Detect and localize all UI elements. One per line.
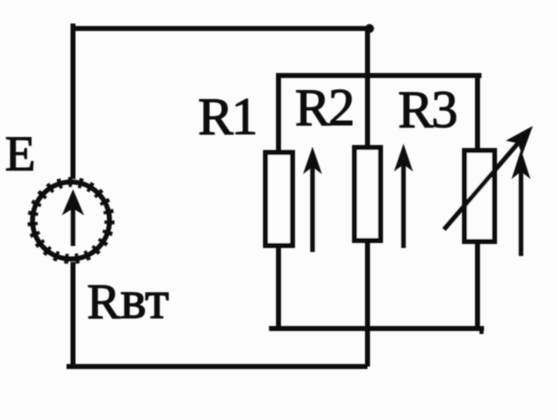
wire: bottom bus of parallel group	[269, 326, 484, 331]
svg-text:R1: R1	[198, 88, 256, 146]
resistor R2 body	[355, 148, 381, 241]
wire: top horizontal from left corner to middle junction	[71, 26, 371, 31]
wire: R1 lower branch	[276, 246, 281, 331]
variable resistor R3: diagonal arrow shaft	[444, 142, 520, 230]
wire: left vertical from top-left corner down to source top	[71, 24, 76, 180]
resistor R1 body	[266, 153, 293, 246]
wire: middle vertical from top wire down to R2	[365, 26, 370, 146]
wire: bottom horizontal back to source	[67, 364, 368, 369]
wire: left vertical from source bottom to bottom wire	[71, 262, 76, 369]
wire: R1 upper branch	[276, 73, 281, 152]
wire: R3 upper branch	[475, 73, 480, 150]
source E: internal arrow head	[64, 191, 83, 214]
wire: top bus of parallel group	[276, 73, 482, 78]
current arrow I3 head	[513, 152, 529, 177]
svg-text:Rвт: Rвт	[87, 269, 169, 330]
svg-text:R3: R3	[398, 81, 456, 139]
current arrow I3 shaft (right of R3)	[519, 168, 524, 256]
wire: R2 lower branch down through bus to bottom wire	[365, 241, 370, 367]
variable resistor R3: diagonal arrow head	[509, 128, 531, 152]
svg-text:E: E	[5, 125, 36, 181]
source E: internal arrow shaft	[71, 203, 76, 246]
source E: bumpy outline ticks	[33, 182, 110, 259]
node: top junction dot	[365, 24, 374, 33]
current arrow I1 shaft (right of R1)	[310, 163, 315, 252]
resistor R3 body	[465, 151, 495, 242]
current arrow I2 shaft (right of R2)	[401, 160, 406, 248]
svg-text:R2: R2	[295, 79, 353, 137]
current arrow I2 head	[396, 146, 412, 170]
node: bottom bus right end nub	[480, 329, 484, 335]
current arrow I1 head	[305, 149, 321, 172]
wire: R3 lower branch	[475, 242, 480, 331]
source E: circle	[33, 182, 110, 259]
